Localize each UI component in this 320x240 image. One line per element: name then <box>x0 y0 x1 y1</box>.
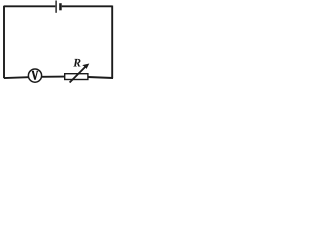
battery B1 short thick plate (negative) <box>59 3 62 10</box>
wire: between rheostat and voltmeter <box>42 76 65 78</box>
svg-text:R: R <box>72 57 81 70</box>
battery B1 long plate (positive) <box>55 1 57 13</box>
wire: right side vertical <box>111 6 113 79</box>
wire: bottom-right from corner to rheostat <box>88 77 113 78</box>
wire: top-right segment from battery to top-right corner <box>62 5 112 7</box>
wire: top-left segment from corner to battery <box>4 5 55 7</box>
voltmeter V glyph right stroke <box>35 71 37 79</box>
voltmeter V1 circle <box>28 69 41 82</box>
rheostat arrowhead <box>82 64 89 70</box>
wire: bottom-left from voltmeter to corner <box>4 76 29 79</box>
rheostat arrow shaft <box>70 67 86 83</box>
rheostat R body box <box>65 74 88 80</box>
voltmeter V glyph top serifs <box>32 70 38 72</box>
wire: left side vertical <box>3 6 5 78</box>
voltmeter V glyph left stroke <box>33 71 35 79</box>
